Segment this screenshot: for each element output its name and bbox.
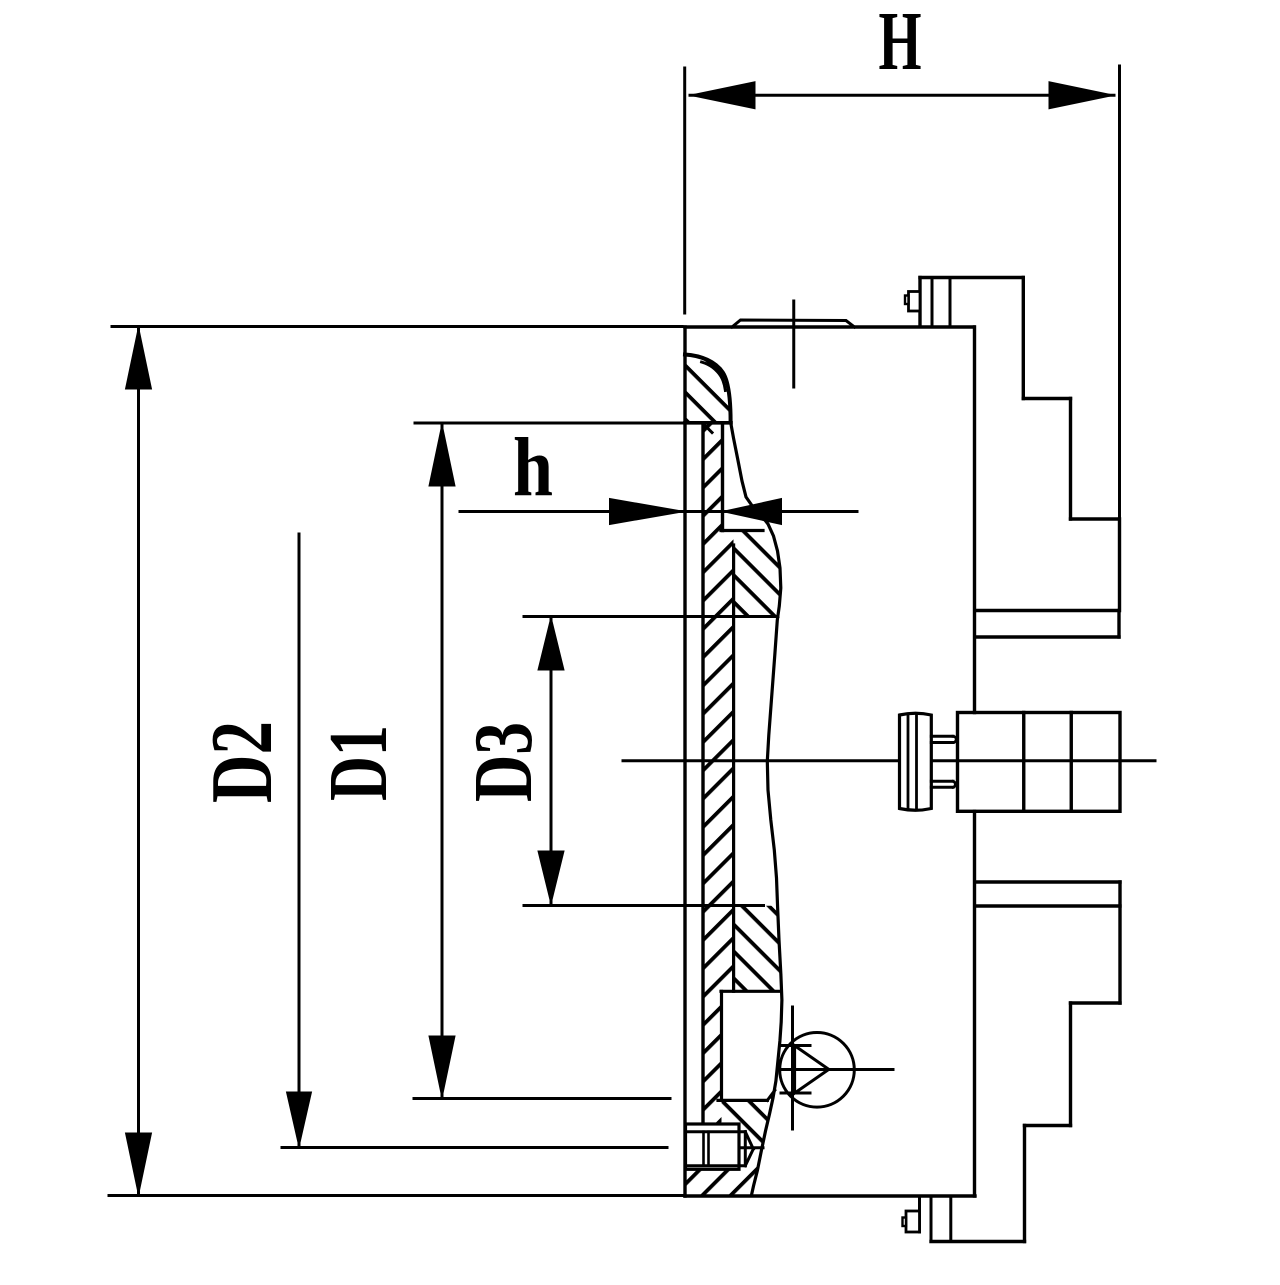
svg-text:D1: D1 — [312, 725, 405, 801]
svg-text:h: h — [513, 421, 553, 514]
svg-text:D2: D2 — [194, 721, 291, 803]
svg-text:D3: D3 — [457, 722, 550, 802]
svg-text:H: H — [879, 0, 922, 88]
